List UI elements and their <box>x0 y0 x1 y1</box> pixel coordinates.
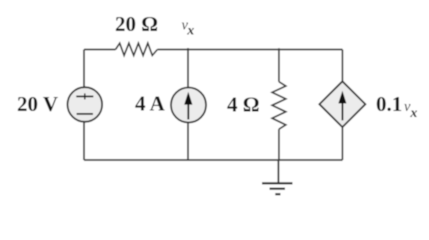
wire branch3 lower <box>278 129 280 160</box>
current source I1 4A <box>171 88 206 123</box>
wire top-left segment <box>84 49 116 51</box>
svg-text:0.1: 0.1 <box>376 92 402 116</box>
resistor R 4ohm zigzag <box>272 82 286 130</box>
svg-text:20 V: 20 V <box>17 92 58 116</box>
svg-text:x: x <box>409 106 417 121</box>
svg-text:x: x <box>186 24 194 39</box>
svg-text:4 Ω: 4 Ω <box>227 93 260 117</box>
wire left upper <box>83 50 85 89</box>
wire right upper <box>341 50 343 82</box>
ground <box>262 160 293 194</box>
resistor R 20ohm zigzag <box>116 43 158 55</box>
wire branch3 upper <box>278 48 280 81</box>
wire branch2 lower <box>187 122 189 160</box>
svg-text:4 A: 4 A <box>135 92 166 116</box>
wire top-right segment <box>157 49 342 51</box>
wire left lower <box>83 122 85 161</box>
svg-text:20 Ω: 20 Ω <box>115 12 158 36</box>
wire right lower <box>341 127 343 160</box>
wire bottom <box>84 159 343 161</box>
dependent source D1 0.1vx diamond <box>319 81 365 127</box>
wire branch2 upper <box>187 48 189 88</box>
voltage source V1 20V <box>68 87 103 122</box>
